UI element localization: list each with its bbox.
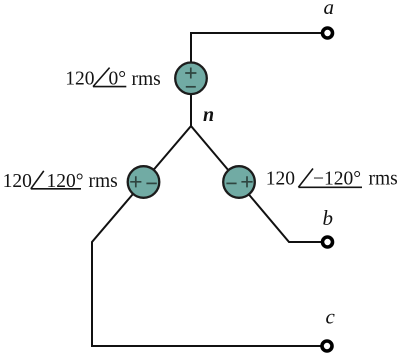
- value label 120∠-120° rms: [266, 169, 398, 190]
- svg-text:120°: 120°: [47, 171, 84, 192]
- value label 120∠0° rms: [65, 68, 160, 90]
- node label c: [326, 305, 336, 329]
- svg-text:rms: rms: [89, 171, 118, 192]
- wire: left branch n to Vbn source to bottom corner, down and across to terminal c: [92, 126, 321, 346]
- svg-text:c: c: [326, 305, 336, 329]
- voltage source U3 (Vcn 120∠-120° rms): [223, 166, 255, 198]
- terminal b: [323, 237, 333, 247]
- svg-text:120: 120: [65, 69, 94, 90]
- terminal a: [323, 28, 333, 38]
- svg-text:−120°: −120°: [313, 169, 361, 190]
- voltage source U2 (Vbn 120∠120° rms): [128, 166, 160, 198]
- node label a: [324, 0, 335, 19]
- wire: top a-phase (source Van top to terminal a): [191, 33, 321, 126]
- svg-text:a: a: [324, 0, 335, 19]
- svg-text:rms: rms: [369, 169, 398, 190]
- svg-text:120: 120: [266, 169, 295, 190]
- svg-text:0°: 0°: [109, 69, 127, 90]
- svg-text:120: 120: [3, 171, 32, 192]
- node label b: [323, 206, 334, 230]
- svg-text:b: b: [323, 206, 334, 230]
- svg-text:rms: rms: [132, 69, 161, 90]
- svg-text:n: n: [203, 104, 214, 126]
- wire: right branch n to Vcn source down to corner and terminal b: [191, 126, 321, 242]
- voltage source U1 (Van 120∠0° rms): [175, 63, 207, 95]
- value label 120∠120° rms: [3, 171, 118, 192]
- terminal c: [322, 341, 332, 351]
- node label n: [203, 104, 214, 126]
